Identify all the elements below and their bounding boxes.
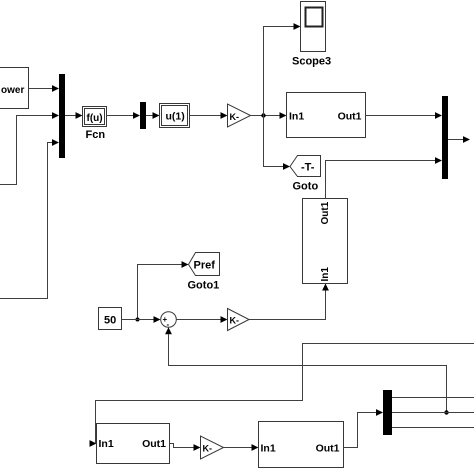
wire U4 to Gain3 <box>170 444 201 451</box>
junction node <box>261 113 265 117</box>
wire branch down to Goto <box>264 116 291 170</box>
wire Mux2 output <box>448 136 470 143</box>
wire Fcn to small mux <box>107 112 141 119</box>
wire junction to Goto1 Pref <box>138 261 189 319</box>
wire Selector to Gain1 <box>190 112 228 119</box>
svg-text:-T-: -T- <box>301 162 315 174</box>
wire demux output 3 <box>392 427 474 429</box>
svg-text:50: 50 <box>104 315 116 327</box>
wire Sum to Gain2 <box>176 316 227 323</box>
svg-text:u(1): u(1) <box>166 111 185 123</box>
svg-text:Out1: Out1 <box>320 201 331 224</box>
mux Mux2 <box>442 96 448 179</box>
goto tag Pref <box>189 253 220 276</box>
mux Mux1 <box>59 74 65 158</box>
svg-text:K-: K- <box>230 316 240 326</box>
mux small bar <box>140 102 146 129</box>
svg-text:Goto1: Goto1 <box>188 280 220 292</box>
wire left input 3 into Mux1 <box>0 139 59 298</box>
goto tag -T- <box>290 156 321 177</box>
svg-text:Scope3: Scope3 <box>292 56 331 68</box>
svg-text:-: - <box>167 320 170 329</box>
svg-text:In1: In1 <box>99 438 114 450</box>
wire Power to Mux1 <box>29 85 60 92</box>
subsystem U1 In1/Out1 top <box>287 93 366 138</box>
junction node <box>444 410 448 414</box>
wire feedback A from right edge to subsystem U4 In1 <box>90 344 474 447</box>
wire Gain2 to U2 In1 <box>249 284 329 320</box>
sum junction circle <box>161 312 177 328</box>
gain K- Gain3 <box>201 436 224 459</box>
block Fcn f(u) <box>83 107 107 127</box>
wire Gain1 to subsystem In1 <box>251 112 287 119</box>
wire demux output 2 <box>392 412 474 414</box>
svg-text:ower: ower <box>1 85 24 96</box>
wire branch up to Scope3 <box>264 23 301 115</box>
svg-text:Goto: Goto <box>293 181 319 193</box>
wire U2 Out1 up to Mux2 <box>326 157 443 198</box>
svg-text:K-: K- <box>203 444 213 454</box>
junction node <box>136 318 140 322</box>
svg-text:Out1: Out1 <box>338 111 362 123</box>
wire small mux to Selector u(1) <box>146 112 160 119</box>
svg-text:Fcn: Fcn <box>86 129 106 141</box>
gain K- Gain1 <box>228 104 251 127</box>
constant 50 <box>99 308 122 330</box>
svg-text:Pref: Pref <box>194 260 216 272</box>
subsystem U4 In1/Out1 bottom-left <box>97 424 170 464</box>
wire 50 to Sum <box>122 316 161 323</box>
block Selector u(1) <box>160 104 190 128</box>
svg-text:In1: In1 <box>289 111 304 123</box>
wire subsystem to Mux2 <box>366 112 443 119</box>
wire left input 2 into Mux1 <box>0 112 59 184</box>
scope Scope3 <box>301 2 326 52</box>
demux bar <box>383 390 392 435</box>
svg-text:In1: In1 <box>320 267 331 282</box>
svg-text:Out1: Out1 <box>316 443 340 455</box>
wire feedback B from demux mid output to Sum bottom <box>165 327 446 412</box>
svg-text:K-: K- <box>230 112 240 122</box>
subsystem U3 In1/Out1 bottom-right <box>259 422 344 468</box>
svg-text:Out1: Out1 <box>142 438 166 450</box>
block Power (cut off at left edge) <box>0 68 29 109</box>
svg-text:In1: In1 <box>261 443 276 455</box>
wire Gain3 to U3 In1 <box>224 444 259 451</box>
subsystem U2 vertical Out1/In1 <box>303 199 348 284</box>
gain K- Gain2 <box>228 309 250 331</box>
svg-text:f(u): f(u) <box>87 113 103 124</box>
wire U3 to Demux <box>344 409 384 447</box>
wire Mux1 to Fcn <box>65 112 83 119</box>
wire demux output 1 <box>392 397 474 399</box>
